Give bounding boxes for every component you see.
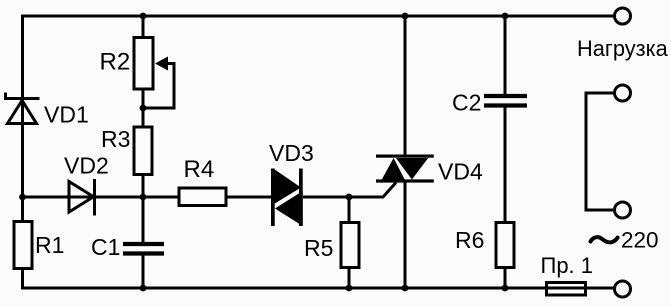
svg-text:R3: R3	[101, 126, 130, 152]
svg-text:C1: C1	[91, 234, 120, 260]
svg-text:R5: R5	[304, 235, 333, 261]
svg-text:Нагрузка: Нагрузка	[577, 36, 669, 61]
svg-text:C2: C2	[452, 90, 481, 116]
svg-text:R1: R1	[35, 232, 64, 258]
svg-text:R6: R6	[455, 227, 484, 253]
svg-text:VD3: VD3	[269, 140, 314, 166]
svg-text:VD2: VD2	[64, 153, 109, 179]
svg-text:VD4: VD4	[438, 159, 483, 185]
svg-text:220: 220	[621, 228, 659, 253]
svg-text:Пр. 1: Пр. 1	[541, 253, 594, 278]
svg-text:R2: R2	[100, 49, 131, 76]
svg-text:VD1: VD1	[44, 102, 89, 128]
svg-text:R4: R4	[184, 156, 215, 183]
